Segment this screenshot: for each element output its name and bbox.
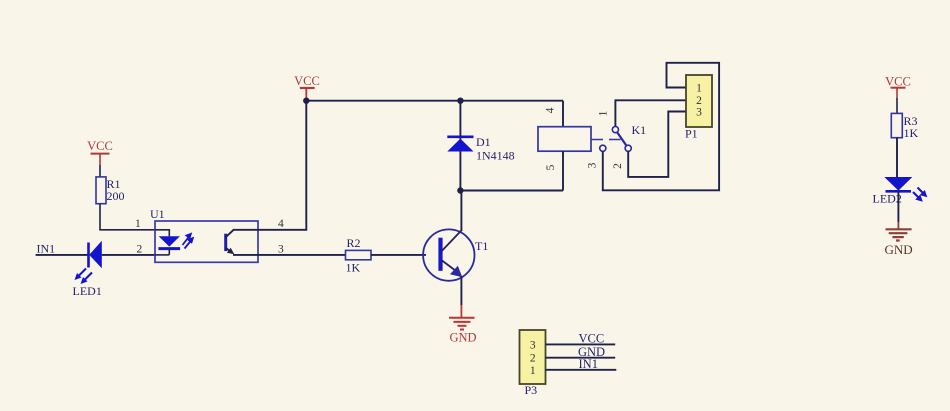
U1 emission arrows bbox=[183, 232, 195, 248]
svg-text:4: 4 bbox=[545, 107, 557, 113]
wire relay bottom return bbox=[460, 190, 563, 192]
relay switch blade bbox=[617, 133, 626, 146]
wire VCC to R1 bbox=[99, 165, 101, 177]
wire T1 collector to node bbox=[460, 191, 462, 231]
svg-text:1K: 1K bbox=[346, 261, 361, 275]
pin number 1 (U1) bbox=[135, 218, 141, 230]
svg-text:2: 2 bbox=[696, 95, 702, 107]
label T1 bbox=[475, 239, 488, 253]
svg-text:2: 2 bbox=[137, 243, 143, 255]
wire D1 branch vertical bbox=[459, 101, 461, 191]
power VCC (right, R3 branch) bbox=[885, 75, 911, 99]
wire contact 2 to P1 pin 3 bbox=[628, 112, 686, 177]
wire P3 pin 2 net GND bbox=[546, 357, 616, 359]
relay contact 1 bbox=[612, 127, 618, 133]
svg-text:GND: GND bbox=[450, 331, 477, 345]
svg-text:2: 2 bbox=[612, 163, 624, 169]
wire LED1 to U1 pin 2 bbox=[102, 254, 155, 256]
label LED1 bbox=[73, 284, 102, 298]
svg-text:VCC: VCC bbox=[87, 139, 113, 153]
pin number 3 (U1) bbox=[278, 243, 284, 255]
wire U1 pin 4 to VCC rail bbox=[258, 101, 306, 230]
relay actuation dashed link bbox=[592, 139, 622, 141]
node IN1 bbox=[37, 242, 56, 256]
diode D1 bbox=[447, 137, 473, 152]
node net label GND bbox=[578, 345, 605, 359]
svg-text:IN1: IN1 bbox=[579, 357, 598, 371]
pin number 1 (K1) bbox=[598, 110, 610, 116]
svg-text:R2: R2 bbox=[347, 236, 361, 250]
wire IN1 to LED1 bbox=[36, 254, 89, 256]
node D1 bottom junction bbox=[457, 187, 463, 193]
label LED2 bbox=[873, 192, 902, 206]
svg-text:1: 1 bbox=[135, 218, 141, 230]
LED D LED1 bbox=[75, 241, 102, 284]
svg-text:1: 1 bbox=[530, 365, 536, 377]
svg-text:1: 1 bbox=[696, 83, 702, 95]
wire P3 pin 1 net IN1 bbox=[546, 369, 617, 371]
node D1 top junction bbox=[457, 98, 463, 104]
wire VCC rail to relay bbox=[306, 100, 563, 102]
pin number 4 (U1) bbox=[278, 218, 284, 230]
svg-text:U1: U1 bbox=[150, 207, 165, 221]
transistor U1 photo-transistor bbox=[226, 230, 258, 255]
svg-text:D1: D1 bbox=[476, 135, 491, 149]
svg-text:3: 3 bbox=[530, 340, 536, 352]
svg-text:3: 3 bbox=[278, 243, 284, 255]
label K1 bbox=[632, 123, 647, 137]
resistor R2 bbox=[346, 250, 372, 259]
label U1 bbox=[150, 207, 165, 221]
svg-text:200: 200 bbox=[107, 189, 125, 203]
node net label IN1 bbox=[579, 357, 598, 371]
wire VCC to R3 bbox=[896, 98, 898, 113]
LED D LED2 bbox=[884, 177, 927, 202]
op-amp U1 optocoupler body bbox=[155, 221, 258, 262]
svg-text:1K: 1K bbox=[904, 126, 919, 140]
label P1 bbox=[685, 127, 698, 141]
pin number 2 (U1) bbox=[137, 243, 143, 255]
power VCC (left, R1 branch) bbox=[87, 139, 113, 165]
resistor R1 bbox=[96, 177, 106, 204]
pin number 5 (K1) bbox=[545, 164, 557, 170]
svg-text:K1: K1 bbox=[632, 123, 647, 137]
svg-text:1N4148: 1N4148 bbox=[476, 149, 515, 163]
power VCC (top rail) bbox=[294, 74, 320, 98]
svg-text:P1: P1 bbox=[685, 127, 698, 141]
label P3 bbox=[525, 383, 538, 397]
value label D1 1N4148 bbox=[476, 135, 515, 163]
svg-text:T1: T1 bbox=[475, 239, 488, 253]
value label R2 1K bbox=[346, 236, 361, 275]
pin number 3 (K1) bbox=[587, 162, 599, 168]
U1 internal LED bbox=[155, 230, 180, 255]
transistor T1 bbox=[423, 229, 474, 280]
wire contact 3 to P1 pin 1 bbox=[603, 63, 719, 191]
svg-text:LED1: LED1 bbox=[73, 284, 102, 298]
svg-text:VCC: VCC bbox=[579, 332, 605, 346]
wire U1 pin 3 to R2 bbox=[258, 254, 346, 256]
wire relay pin 5 lead bbox=[562, 151, 564, 190]
svg-text:LED2: LED2 bbox=[873, 192, 902, 206]
svg-text:3: 3 bbox=[587, 162, 599, 168]
svg-text:2: 2 bbox=[530, 353, 536, 365]
svg-text:P3: P3 bbox=[525, 383, 538, 397]
resistor R3 bbox=[891, 113, 902, 137]
wire R3 to LED2 bbox=[896, 138, 898, 177]
ground GND (under T1) bbox=[449, 305, 477, 345]
ground GND (right) bbox=[885, 222, 913, 257]
wire R2 to T1 base bbox=[371, 254, 426, 256]
svg-text:3: 3 bbox=[696, 107, 702, 119]
node net label VCC bbox=[579, 332, 605, 346]
svg-text:5: 5 bbox=[545, 164, 557, 170]
svg-text:IN1: IN1 bbox=[37, 242, 56, 256]
relay coil K1 bbox=[538, 127, 591, 152]
value label R1 200 bbox=[107, 177, 125, 203]
wire relay pin 4 lead bbox=[562, 101, 564, 127]
connector P3 bbox=[520, 330, 546, 384]
svg-text:VCC: VCC bbox=[294, 74, 320, 88]
wire contact 1 to P1 pin 2 bbox=[615, 100, 686, 126]
connector P1 bbox=[686, 75, 712, 127]
relay contact 3 bbox=[600, 145, 606, 151]
svg-text:GND: GND bbox=[885, 242, 913, 257]
wire R1 to U1 pin 1 bbox=[100, 204, 155, 230]
wire LED2 to ground bbox=[897, 191, 899, 222]
wire T1 emitter to ground bbox=[460, 277, 462, 306]
svg-text:VCC: VCC bbox=[885, 75, 911, 89]
svg-text:4: 4 bbox=[278, 218, 284, 230]
svg-text:1: 1 bbox=[598, 110, 610, 116]
node VCC junction A bbox=[303, 98, 309, 104]
wire P3 pin 3 net VCC bbox=[546, 343, 616, 345]
value label R3 1K bbox=[904, 114, 919, 140]
pin number 4 (K1) bbox=[545, 107, 557, 113]
relay contact 2 bbox=[625, 145, 631, 151]
pin number 2 (K1) bbox=[612, 163, 624, 169]
